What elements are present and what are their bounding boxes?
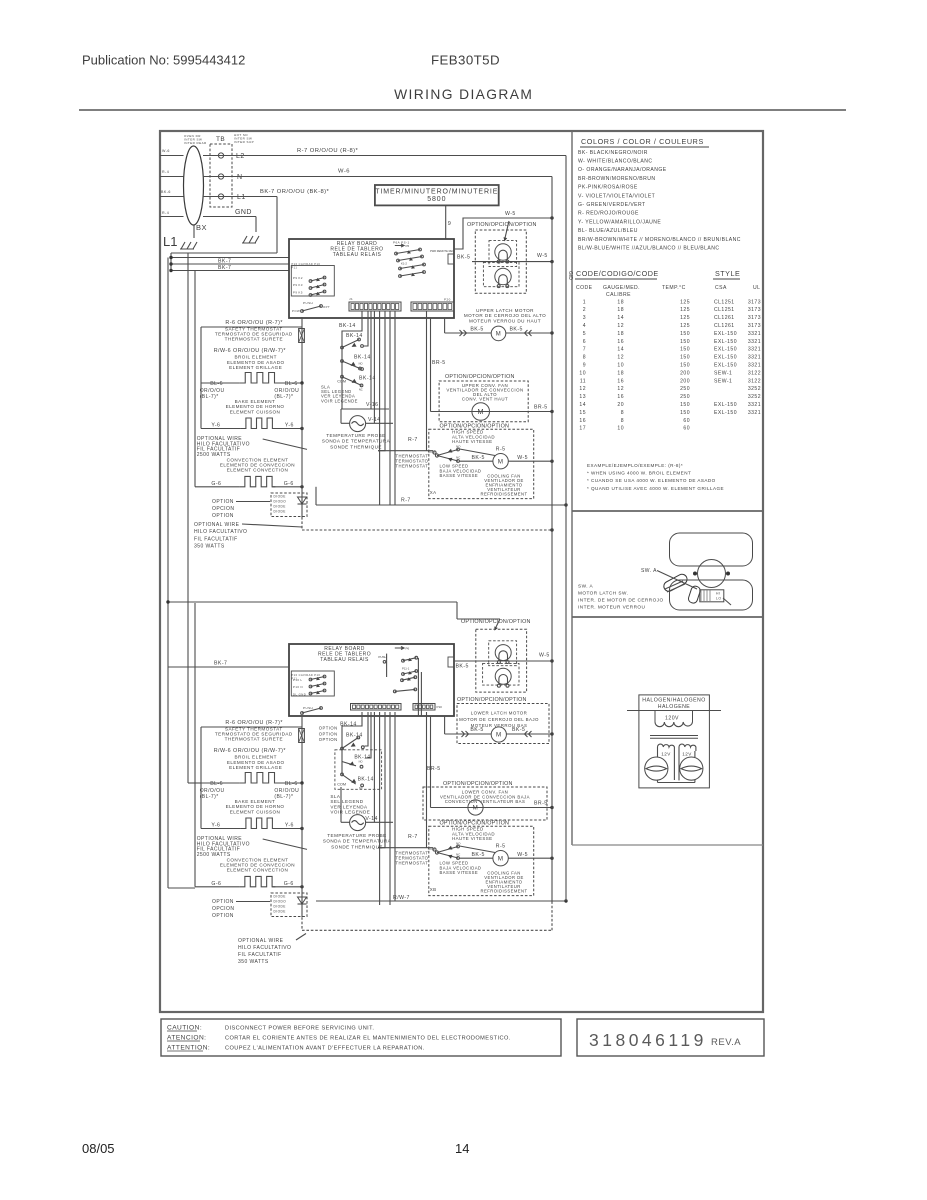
svg-text:FIL FACULTATIF: FIL FACULTATIF <box>238 952 282 958</box>
svg-text:BASSE VITESSE: BASSE VITESSE <box>440 870 479 875</box>
svg-text:TIMER/MINUTERO/MINUTERIE: TIMER/MINUTERO/MINUTERIE <box>375 188 498 195</box>
svg-text:BL-6: BL-6 <box>210 381 223 387</box>
cooling fan option box upper <box>429 429 534 498</box>
svg-text:60: 60 <box>683 426 690 432</box>
relay board 2 relay cluster <box>395 647 404 650</box>
svg-text:3122: 3122 <box>748 370 761 376</box>
svg-text:OPTIONAL WIRE: OPTIONAL WIRE <box>238 938 284 944</box>
svg-text:Y-6: Y-6 <box>285 823 294 829</box>
svg-text:125: 125 <box>680 315 690 321</box>
svg-text:OPTION: OPTION <box>212 899 234 905</box>
svg-text:TEMP.°C: TEMP.°C <box>662 285 686 291</box>
svg-text:12: 12 <box>617 355 624 361</box>
svg-text:MOTOR LATCH SW.: MOTOR LATCH SW. <box>578 591 628 596</box>
svg-text:DIODO: DIODO <box>274 500 287 504</box>
svg-text:R-7 OR/O/OU (R-8)*: R-7 OR/O/OU (R-8)* <box>297 148 359 154</box>
upper convection fan motor <box>431 411 553 413</box>
svg-text:2: 2 <box>583 307 586 313</box>
svg-text:3122: 3122 <box>748 378 761 384</box>
bake element lower <box>201 828 241 830</box>
svg-text:REFROIDISSEMENT: REFROIDISSEMENT <box>481 889 528 894</box>
timer box 5800 <box>375 185 499 205</box>
svg-text:SONDA DE TEMPERATURA: SONDA DE TEMPERATURA <box>322 439 391 444</box>
convection element upper <box>195 486 239 488</box>
svg-text:200: 200 <box>680 378 690 384</box>
svg-text:L1: L1 <box>237 194 246 201</box>
svg-text:SEL LEGEND: SEL LEGEND <box>330 799 363 804</box>
svg-text:ELEMENT GRILLAGE: ELEMENT GRILLAGE <box>229 365 282 370</box>
svg-text:HILO FACULTATIVO: HILO FACULTATIVO <box>194 529 247 535</box>
right panel border <box>571 131 573 845</box>
svg-text:EXL-150: EXL-150 <box>714 402 737 408</box>
wire relay to lamps 2 <box>457 619 500 627</box>
svg-text:R-5: R-5 <box>496 843 506 849</box>
svg-text:SONDE THERMIQUE: SONDE THERMIQUE <box>331 844 383 849</box>
svg-text:HI: HI <box>716 592 720 596</box>
svg-text:318046119: 318046119 <box>589 1030 707 1050</box>
svg-text:CORTAR EL CORIENTE ANTES DE RE: CORTAR EL CORIENTE ANTES DE REALIZAR EL … <box>225 1036 511 1042</box>
svg-text:THERMOSTAT: THERMOSTAT <box>396 860 429 865</box>
svg-text:GID: GID <box>567 271 573 280</box>
BK-7 feed wires to relay board 1 <box>171 257 289 259</box>
transformer core <box>650 735 698 737</box>
svg-text:R-7: R-7 <box>408 834 418 840</box>
trunk W vertical <box>551 177 553 902</box>
svg-text:ELEMENT CUISSON: ELEMENT CUISSON <box>230 809 281 814</box>
relay board 1 contacts left <box>291 266 334 297</box>
svg-text:CONV. VENT HAUT: CONV. VENT HAUT <box>462 397 508 402</box>
svg-text:5: 5 <box>583 331 586 337</box>
svg-text:R-7: R-7 <box>401 498 411 504</box>
svg-text:BL/W-BLUE/WHITE //AZUL/BLANCO: BL/W-BLUE/WHITE //AZUL/BLANCO // BLEU/BL… <box>578 246 720 252</box>
svg-text:TB: TB <box>216 136 225 143</box>
svg-text:R-6 OR/O/OU (R-7)*: R-6 OR/O/OU (R-7)* <box>225 720 283 726</box>
oven lamp 2b <box>495 668 511 684</box>
svg-text:INTER. MOTEUR VERROU: INTER. MOTEUR VERROU <box>578 605 645 610</box>
svg-text:Y-6: Y-6 <box>211 423 220 429</box>
svg-text:BK-5: BK-5 <box>456 664 469 670</box>
svg-text:BK-14: BK-14 <box>354 355 371 361</box>
relay board 1 output wires <box>342 311 362 348</box>
svg-text:150: 150 <box>680 410 690 416</box>
svg-text:OPTION: OPTION <box>212 499 234 505</box>
svg-text:16: 16 <box>617 339 624 345</box>
svg-text:P10: P10 <box>437 705 443 709</box>
oven lamp 1b <box>495 268 511 284</box>
svg-text:W-5: W-5 <box>517 852 528 858</box>
cooling fan motor lower <box>493 851 508 866</box>
svg-text:P6: P6 <box>406 244 410 248</box>
svg-text:7: 7 <box>583 347 586 353</box>
svg-text:W-5: W-5 <box>539 653 550 659</box>
svg-text:R- RED/ROJO/ROUGE: R- RED/ROJO/ROUGE <box>578 211 639 217</box>
svg-text:3173: 3173 <box>748 323 761 329</box>
svg-text:125: 125 <box>680 323 690 329</box>
svg-text:3: 3 <box>583 315 586 321</box>
svg-text:R-4: R-4 <box>162 170 169 174</box>
lower convection fan option box <box>423 787 547 820</box>
svg-text:CODE/CODIGO/CODE: CODE/CODIGO/CODE <box>576 269 659 278</box>
oven lamp option box 2 <box>476 629 527 692</box>
footer date <box>82 1141 115 1156</box>
svg-text:XB: XB <box>430 887 437 892</box>
svg-text:16: 16 <box>579 418 586 424</box>
svg-text:M: M <box>496 732 502 739</box>
temperature probe 2 <box>340 787 342 822</box>
svg-text:R/W-6 OR/O/OU (R/W-7)*: R/W-6 OR/O/OU (R/W-7)* <box>214 348 287 354</box>
svg-text:12V: 12V <box>682 752 692 757</box>
trunk R/W-7 <box>316 900 566 902</box>
relay board 2 <box>289 644 454 716</box>
svg-text:EXL-150: EXL-150 <box>714 363 737 369</box>
svg-text:11: 11 <box>580 378 586 384</box>
svg-text:DIODE: DIODE <box>274 505 286 509</box>
svg-text:BR-5: BR-5 <box>534 405 548 411</box>
svg-text:OPTION/OPCION/OPTION: OPTION/OPCION/OPTION <box>440 820 510 826</box>
transformer secondary coils <box>658 744 675 751</box>
svg-text:BK-5: BK-5 <box>472 852 485 858</box>
svg-text:BK-14: BK-14 <box>358 777 374 783</box>
svg-text:BK-14: BK-14 <box>359 376 376 382</box>
svg-text:V-16: V-16 <box>366 402 378 408</box>
svg-text:18: 18 <box>617 331 624 337</box>
svg-text:OPTION/OPCION/OPTION: OPTION/OPCION/OPTION <box>445 374 515 380</box>
svg-text:3321: 3321 <box>748 339 761 345</box>
svg-text:12: 12 <box>617 323 624 329</box>
svg-text:125: 125 <box>680 299 690 305</box>
svg-text:DIODE: DIODE <box>274 495 286 499</box>
wire BK-7 to relay board 2 <box>168 666 289 668</box>
svg-text:CODE: CODE <box>576 285 593 291</box>
svg-text:DIODE: DIODE <box>274 910 286 914</box>
svg-text:OPTION: OPTION <box>319 726 338 731</box>
svg-text:OPTION/OPCION/OPTION: OPTION/OPCION/OPTION <box>467 222 537 228</box>
svg-text:CL1261: CL1261 <box>714 315 735 321</box>
svg-text:* WHEN USING 4000 W. BROIL ELE: * WHEN USING 4000 W. BROIL ELEMENT <box>587 471 691 476</box>
svg-text:DIODE: DIODE <box>274 895 286 899</box>
svg-text:EXL-150: EXL-150 <box>714 347 737 353</box>
svg-text:BK-7 OR/O/OU (BK-8)*: BK-7 OR/O/OU (BK-8)* <box>260 189 330 195</box>
svg-text:60: 60 <box>683 418 690 424</box>
diode box upper <box>271 493 307 517</box>
svg-text:P6: P6 <box>406 647 410 651</box>
svg-text:TEMPERATURE PROBE: TEMPERATURE PROBE <box>327 833 386 838</box>
upper convection fan option box <box>439 381 528 422</box>
ground symbol right <box>242 236 259 243</box>
svg-text:OPTION: OPTION <box>212 513 234 519</box>
svg-text:R-4: R-4 <box>162 211 169 215</box>
lower convection fan motor <box>431 807 553 809</box>
svg-text:150: 150 <box>680 363 690 369</box>
svg-text:EXL-150: EXL-150 <box>714 331 737 337</box>
svg-text:M: M <box>477 407 483 416</box>
svg-text:ATTENTION:: ATTENTION: <box>167 1045 210 1052</box>
terminal block TB <box>210 144 232 207</box>
svg-text:120V: 120V <box>665 716 679 722</box>
svg-text:BR-5: BR-5 <box>427 766 441 772</box>
svg-text:BR/W-BROWN/WHITE // MORENO/BLA: BR/W-BROWN/WHITE // MORENO/BLANCO // BRU… <box>578 237 741 243</box>
svg-text:NC: NC <box>359 388 363 392</box>
svg-text:V- VIOLET/VIOLETA/VIOLET: V- VIOLET/VIOLETA/VIOLET <box>578 193 655 199</box>
svg-text:3173: 3173 <box>748 315 761 321</box>
svg-text:MOTEUR VERROU DU HAUT: MOTEUR VERROU DU HAUT <box>469 318 541 323</box>
svg-text:3321: 3321 <box>748 410 761 416</box>
svg-text:P9 K2: P9 K2 <box>293 276 303 280</box>
oven lamp 1a <box>495 244 511 260</box>
svg-text:INTER REAR: INTER REAR <box>184 141 207 145</box>
svg-text:R/W-7: R/W-7 <box>393 895 410 901</box>
svg-text:XA: XA <box>430 490 437 495</box>
svg-text:DIODO: DIODO <box>274 900 287 904</box>
svg-text:3321: 3321 <box>748 402 761 408</box>
svg-text:8: 8 <box>583 355 586 361</box>
relay board 1 connector strip P20 <box>411 302 454 311</box>
wire from relay to latch <box>444 318 446 333</box>
svg-text:NC: NC <box>359 786 363 790</box>
svg-text:EXL-150: EXL-150 <box>714 355 737 361</box>
svg-text:NO: NO <box>456 842 461 846</box>
svg-text:THERMOSTAT SURETE: THERMOSTAT SURETE <box>225 737 283 742</box>
svg-text:DIODE: DIODE <box>274 510 286 514</box>
svg-text:EXL-150: EXL-150 <box>714 339 737 345</box>
svg-text:P9 K5: P9 K5 <box>293 290 303 294</box>
svg-text:16: 16 <box>617 394 624 400</box>
relay board 2 connector strip P10 <box>413 704 435 711</box>
svg-text:15: 15 <box>579 410 586 416</box>
svg-text:BK-5: BK-5 <box>510 327 523 333</box>
diode box lower <box>271 893 307 917</box>
panel divider 2 <box>572 616 763 618</box>
svg-text:TABLEAU RELAIS: TABLEAU RELAIS <box>333 252 382 258</box>
svg-text:EXL-150: EXL-150 <box>714 410 737 416</box>
svg-text:P20: P20 <box>444 298 451 302</box>
svg-text:VOIR LEGENDE: VOIR LEGENDE <box>330 810 370 815</box>
svg-text:G-6: G-6 <box>284 881 294 887</box>
svg-text:THERMOSTAT: THERMOSTAT <box>396 463 429 468</box>
svg-text:10: 10 <box>617 363 624 369</box>
svg-text:3252: 3252 <box>748 394 761 400</box>
terminal N <box>218 174 223 179</box>
svg-text:BK-5: BK-5 <box>470 327 483 333</box>
lower latch motor option box <box>457 704 549 744</box>
left vertical bus <box>170 253 172 271</box>
svg-text:OPTION/OPCION/OPTION: OPTION/OPCION/OPTION <box>440 423 510 429</box>
title underline <box>79 109 846 111</box>
svg-text:12: 12 <box>617 386 624 392</box>
wire R-5 lower <box>460 846 496 853</box>
svg-text:L1: L1 <box>163 234 177 249</box>
svg-text:REFROIDISSEMENT: REFROIDISSEMENT <box>481 492 528 497</box>
svg-text:W-5: W-5 <box>517 455 528 461</box>
svg-text:OPTION/OPCION/OPTION: OPTION/OPCION/OPTION <box>457 697 527 703</box>
wire into diode lower <box>301 783 303 917</box>
temperature probe 1 <box>340 409 342 423</box>
svg-text:9: 9 <box>448 221 452 227</box>
svg-text:R-7: R-7 <box>408 437 418 443</box>
svg-text:250: 250 <box>680 386 690 392</box>
bus wire between halves <box>168 601 457 603</box>
svg-text:COM: COM <box>337 782 346 786</box>
svg-text:16: 16 <box>617 378 624 384</box>
svg-text:3173: 3173 <box>748 299 761 305</box>
svg-text:ELEMENT CUISSON: ELEMENT CUISSON <box>230 409 281 414</box>
optional wire dashed 2 <box>301 917 303 930</box>
svg-text:18: 18 <box>617 299 624 305</box>
latch motor box <box>700 590 724 602</box>
svg-text:150: 150 <box>680 331 690 337</box>
svg-text:350 WATTS: 350 WATTS <box>194 544 225 550</box>
wire R-5 upper <box>460 449 496 456</box>
svg-text:SEW-1: SEW-1 <box>714 378 732 384</box>
svg-text:SW. A: SW. A <box>578 584 593 589</box>
svg-text:P9 K3: P9 K3 <box>293 283 303 287</box>
svg-text:Publication No: 5995443412: Publication No: 5995443412 <box>82 53 245 68</box>
lower latch motor <box>445 733 491 735</box>
svg-text:BK-7: BK-7 <box>214 661 227 667</box>
svg-text:W-5: W-5 <box>537 253 548 259</box>
svg-text:COUPEZ L'ALIMENTATION AVANT D': COUPEZ L'ALIMENTATION AVANT D'EFFECTUER … <box>225 1046 425 1052</box>
svg-text:3173: 3173 <box>748 307 761 313</box>
svg-text:OPTION/OPCION/OPTION: OPTION/OPCION/OPTION <box>461 619 531 625</box>
svg-text:12V: 12V <box>661 752 671 757</box>
svg-text:PUSH: PUSH <box>303 301 313 305</box>
svg-text:J1: J1 <box>349 297 353 301</box>
svg-text:CALIBRE: CALIBRE <box>606 292 631 298</box>
halogen transformer box <box>639 695 710 788</box>
wire W-5 top <box>454 218 552 249</box>
svg-text:1: 1 <box>583 299 586 305</box>
svg-text:SLA: SLA <box>330 794 341 799</box>
svg-text:350 WATTS: 350 WATTS <box>238 959 269 965</box>
svg-text:CAUTION:: CAUTION: <box>167 1025 202 1032</box>
wire L1 BK-7 <box>203 196 277 198</box>
svg-text:CSA: CSA <box>715 285 727 291</box>
svg-text:3321: 3321 <box>748 331 761 337</box>
svg-text:4: 4 <box>583 323 586 329</box>
svg-text:EXAMPLE/EJEMPLO/EXEMPLE: (R-8): EXAMPLE/EJEMPLO/EXEMPLE: (R-8)* <box>587 463 683 468</box>
svg-text:W-6: W-6 <box>338 169 350 175</box>
svg-text:18: 18 <box>617 307 624 313</box>
svg-text:SONDE THERMIQUE: SONDE THERMIQUE <box>330 444 382 449</box>
svg-text:OPTION: OPTION <box>319 731 338 736</box>
svg-text:SW. A: SW. A <box>641 568 657 574</box>
svg-text:250: 250 <box>680 394 690 400</box>
svg-text:G-6: G-6 <box>211 881 221 887</box>
trunk R vertical <box>565 156 567 902</box>
wire R-7 to thermostat lower <box>378 847 433 849</box>
svg-text:REV.A: REV.A <box>711 1037 741 1048</box>
svg-text:ELEMENT CONVECTION: ELEMENT CONVECTION <box>227 468 289 473</box>
oven lamp 2a <box>495 645 511 661</box>
svg-text:OPTION: OPTION <box>319 737 338 742</box>
svg-text:(BL-7)*: (BL-7)* <box>200 794 219 800</box>
svg-text:BL-6: BL-6 <box>285 781 298 787</box>
svg-text:OPCION: OPCION <box>212 906 234 912</box>
svg-text:CL1251: CL1251 <box>714 307 735 313</box>
svg-text:LO: LO <box>716 597 721 601</box>
svg-text:CONVECTION VENTILATEUR BAS: CONVECTION VENTILATEUR BAS <box>445 799 526 804</box>
svg-text:GND: GND <box>235 209 252 216</box>
oven lamp option box 1 <box>475 230 526 293</box>
svg-text:VOIR LEGENDE: VOIR LEGENDE <box>321 398 358 403</box>
svg-text:9: 9 <box>583 363 586 369</box>
latch lever <box>662 572 689 593</box>
svg-text:HAUTE VITESSE: HAUTE VITESSE <box>452 439 493 444</box>
svg-text:3252: 3252 <box>748 386 761 392</box>
motor latch switch SW.A drawing <box>670 533 753 566</box>
svg-text:W-5: W-5 <box>505 211 516 217</box>
relay board 2 connector strip P4 <box>351 704 402 711</box>
halogen lamp 1 <box>645 757 668 780</box>
svg-text:3321: 3321 <box>748 363 761 369</box>
svg-text:PWR REMOTE REC: PWR REMOTE REC <box>430 249 454 253</box>
wire GND <box>203 216 256 218</box>
relay board 1 connector strip P4 <box>349 302 401 311</box>
svg-text:(BL-7)*: (BL-7)* <box>274 794 293 800</box>
svg-text:WIRING DIAGRAM: WIRING DIAGRAM <box>394 87 533 102</box>
svg-text:Y-6: Y-6 <box>211 823 220 829</box>
svg-text:CL1261: CL1261 <box>714 323 735 329</box>
wire into diode upper <box>301 383 303 517</box>
svg-text:(BL-7)*: (BL-7)* <box>274 394 293 400</box>
svg-text:M: M <box>496 332 501 338</box>
wire from relay to latch 2 <box>444 716 446 734</box>
svg-text:NO: NO <box>359 759 363 763</box>
optional wire dashed 1 <box>301 517 303 530</box>
supply harness oval <box>184 146 204 225</box>
svg-text:G-6: G-6 <box>284 481 294 487</box>
optional wire jumper upper <box>263 439 307 449</box>
svg-text:150: 150 <box>680 347 690 353</box>
svg-text:OPTIONAL WIRE: OPTIONAL WIRE <box>194 522 240 528</box>
panel divider 1 <box>572 510 763 512</box>
relay board 1 <box>289 239 454 318</box>
svg-text:SONDA DE TEMPERATURA: SONDA DE TEMPERATURA <box>323 839 392 844</box>
relay board 2 power conn <box>448 657 454 667</box>
svg-text:DL GND: DL GND <box>293 692 306 696</box>
svg-text:BK-5: BK-5 <box>457 255 470 261</box>
main diagram border <box>160 131 763 1012</box>
svg-text:VER LEYENDA: VER LEYENDA <box>330 804 368 809</box>
svg-text:M: M <box>498 855 504 862</box>
svg-text:CL1251: CL1251 <box>714 299 735 305</box>
panel divider 3 <box>572 844 763 846</box>
svg-text:R-5: R-5 <box>496 446 506 452</box>
wire BK-5 to cooling fan upper <box>460 460 494 462</box>
svg-text:MOTOR DE CERROJO DEL BAJO: MOTOR DE CERROJO DEL BAJO <box>459 717 539 722</box>
svg-text:BR-5: BR-5 <box>432 360 446 366</box>
svg-text:HILO FACULTATIVO: HILO FACULTATIVO <box>238 945 291 951</box>
svg-text:OPTION: OPTION <box>212 913 234 919</box>
svg-text:Y- YELLOW/AMARILLO/JAUNE: Y- YELLOW/AMARILLO/JAUNE <box>578 219 661 225</box>
svg-text:14: 14 <box>579 402 586 408</box>
cooling fan option box lower <box>429 826 534 895</box>
svg-text:SEW-1: SEW-1 <box>714 370 732 376</box>
svg-text:STYLE: STYLE <box>715 269 740 278</box>
wire L2 R-7 <box>203 155 566 157</box>
svg-text:P10 N: P10 N <box>293 685 303 689</box>
svg-text:BR-BROWN/MORENO/BRUN: BR-BROWN/MORENO/BRUN <box>578 176 655 182</box>
svg-text:ELEMENT GRILLAGE: ELEMENT GRILLAGE <box>229 765 282 770</box>
svg-text:R-6 OR/O/OU (R-7)*: R-6 OR/O/OU (R-7)* <box>225 320 283 326</box>
convection element lower <box>195 886 239 888</box>
svg-text:3321: 3321 <box>748 347 761 353</box>
svg-text:NO: NO <box>456 445 461 449</box>
broil element upper <box>201 382 239 384</box>
svg-text:150: 150 <box>680 402 690 408</box>
svg-text:20: 20 <box>617 402 624 408</box>
svg-text:BK-14: BK-14 <box>340 722 357 728</box>
